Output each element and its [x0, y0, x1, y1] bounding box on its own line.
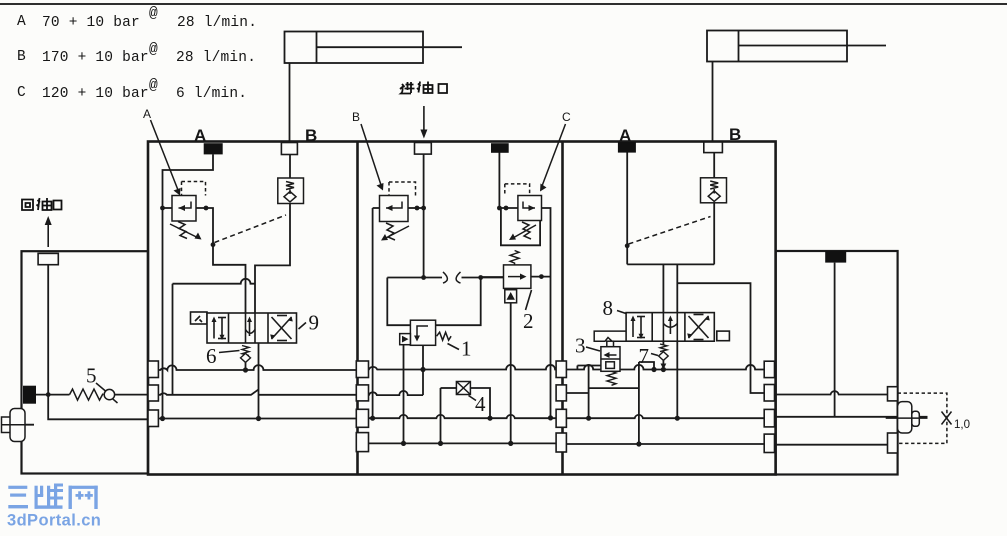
svg-text:170 + 10 bar: 170 + 10 bar — [42, 50, 149, 66]
svg-text:3: 3 — [575, 334, 586, 358]
svg-text:1,0: 1,0 — [954, 419, 970, 431]
svg-text:120 + 10 bar: 120 + 10 bar — [42, 86, 149, 102]
svg-text:B: B — [305, 126, 317, 145]
svg-text:C: C — [562, 110, 571, 124]
svg-text:A: A — [194, 126, 206, 145]
svg-text:8: 8 — [603, 296, 614, 320]
svg-text:70 + 10 bar: 70 + 10 bar — [42, 15, 140, 31]
svg-text:6 l/min.: 6 l/min. — [176, 86, 247, 102]
svg-text:A: A — [17, 14, 26, 30]
svg-text:B: B — [17, 49, 26, 65]
svg-text:4: 4 — [475, 392, 486, 416]
svg-text:5: 5 — [86, 364, 97, 388]
svg-text:B: B — [729, 125, 741, 144]
svg-text:2: 2 — [523, 309, 534, 333]
svg-text:@: @ — [149, 6, 158, 22]
svg-text:A: A — [619, 126, 631, 145]
svg-text:B: B — [352, 110, 360, 124]
svg-text:3dPortal.cn: 3dPortal.cn — [7, 512, 101, 530]
svg-text:28 l/min.: 28 l/min. — [177, 15, 257, 31]
svg-text:1: 1 — [461, 337, 472, 361]
svg-text:@: @ — [149, 42, 158, 58]
svg-text:9: 9 — [309, 311, 320, 335]
svg-text:@: @ — [149, 78, 158, 94]
svg-text:7: 7 — [639, 344, 650, 368]
svg-text:28 l/min.: 28 l/min. — [176, 50, 256, 66]
svg-text:6: 6 — [206, 344, 217, 368]
svg-text:C: C — [17, 85, 26, 101]
svg-text:A: A — [143, 107, 151, 121]
